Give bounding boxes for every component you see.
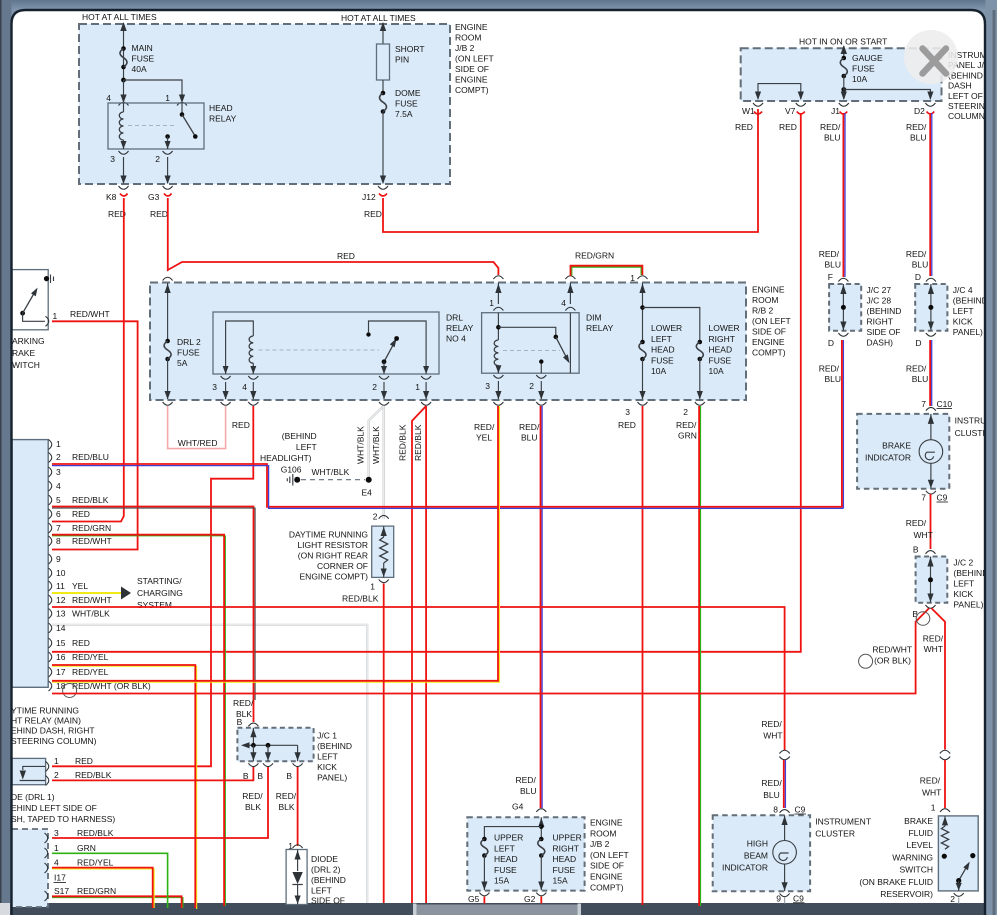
svg-text:GRN: GRN bbox=[678, 431, 697, 441]
wire K8 red down bbox=[52, 194, 128, 522]
svg-text:1: 1 bbox=[630, 273, 635, 283]
svg-text:DASH: DASH bbox=[948, 81, 972, 91]
svg-text:YEL: YEL bbox=[72, 581, 88, 591]
node below gauge fuse bbox=[841, 87, 846, 92]
svg-text:J/C 27: J/C 27 bbox=[867, 285, 892, 295]
svg-text:CLUSTE: CLUSTE bbox=[955, 428, 989, 438]
svg-text:HIGH: HIGH bbox=[747, 839, 768, 849]
svg-text:BLU: BLU bbox=[825, 260, 842, 270]
svg-text:1: 1 bbox=[54, 756, 59, 766]
svg-text:WHT: WHT bbox=[924, 644, 943, 654]
svg-text:RED/GRN: RED/GRN bbox=[575, 251, 614, 261]
svg-text:9: 9 bbox=[776, 894, 781, 904]
wire pin7 RED/GRN to S17 bbox=[52, 536, 225, 906]
wire pin2 RED/BLU to G4 junction and J1 bbox=[52, 464, 843, 507]
svg-text:RED/: RED/ bbox=[819, 364, 840, 374]
wire pin17 RED/YEL down bbox=[52, 406, 499, 682]
svg-text:RED/GRN: RED/GRN bbox=[77, 886, 116, 896]
svg-text:HEAD: HEAD bbox=[709, 345, 733, 355]
svg-text:FUSE: FUSE bbox=[132, 54, 155, 64]
svg-text:RED/WHT: RED/WHT bbox=[72, 536, 112, 546]
svg-text:LOWER: LOWER bbox=[651, 323, 682, 333]
svg-text:3: 3 bbox=[625, 407, 630, 417]
svg-text:D: D bbox=[915, 272, 921, 282]
svg-text:3: 3 bbox=[212, 382, 217, 392]
wire pin11 YEL to starting/charging bbox=[52, 592, 121, 594]
svg-text:HOT AT ALL TIMES: HOT AT ALL TIMES bbox=[82, 12, 157, 22]
svg-text:ENGINE: ENGINE bbox=[752, 285, 785, 295]
engine room J/B 2 lower box bbox=[467, 817, 584, 890]
DIM relay internals bbox=[497, 313, 499, 340]
svg-text:ENGINE: ENGINE bbox=[455, 75, 488, 85]
svg-text:SIDE OF: SIDE OF bbox=[752, 327, 786, 337]
svg-text:RIGHT: RIGHT bbox=[709, 334, 735, 344]
svg-text:BLU: BLU bbox=[824, 133, 841, 143]
svg-text:HT RELAY (MAIN): HT RELAY (MAIN) bbox=[11, 716, 81, 726]
instrument cluster brake indicator box bbox=[857, 414, 949, 489]
svg-text:G2: G2 bbox=[524, 894, 536, 904]
svg-text:FUSE: FUSE bbox=[709, 355, 732, 365]
svg-text:RED/: RED/ bbox=[906, 364, 927, 374]
svg-text:EHIND LEFT SIDE OF: EHIND LEFT SIDE OF bbox=[11, 803, 97, 813]
dashed link G106 to E4 bbox=[301, 479, 365, 481]
svg-text:LEFT: LEFT bbox=[296, 442, 317, 452]
svg-text:DAYTIME RUNNING: DAYTIME RUNNING bbox=[289, 529, 368, 539]
svg-text:STARTING/: STARTING/ bbox=[137, 576, 182, 586]
svg-text:FLUID: FLUID bbox=[908, 828, 933, 838]
svg-text:(BEHIND: (BEHIND bbox=[311, 875, 346, 885]
wire pin18 RED/WHT (OR BLK) to J/C2 bbox=[52, 608, 929, 693]
svg-text:DASH): DASH) bbox=[867, 337, 894, 347]
scrollbar corner notch bbox=[0, 903, 10, 915]
svg-text:ROOM: ROOM bbox=[455, 33, 481, 43]
svg-text:RED/BLK: RED/BLK bbox=[77, 828, 114, 838]
instrument panel J/B dashed box bbox=[741, 48, 942, 101]
svg-text:10A: 10A bbox=[651, 366, 666, 376]
connector 7 C9 bbox=[926, 491, 936, 494]
svg-text:WHT: WHT bbox=[914, 530, 933, 540]
svg-text:(BEHIND: (BEHIND bbox=[953, 295, 988, 305]
svg-text:C9: C9 bbox=[937, 493, 948, 503]
svg-text:COMPT): COMPT) bbox=[752, 348, 786, 358]
svg-text:ENGINE: ENGINE bbox=[590, 872, 623, 882]
svg-text:ENGINE COMPT): ENGINE COMPT) bbox=[300, 572, 369, 582]
svg-text:RAKE: RAKE bbox=[12, 348, 35, 358]
svg-text:J/B 2: J/B 2 bbox=[590, 839, 610, 849]
svg-text:COLUMN: COLUMN bbox=[948, 111, 985, 121]
svg-text:INSTRUMENT: INSTRUMENT bbox=[815, 817, 871, 827]
wires fuses to box bottom bbox=[484, 856, 541, 891]
svg-text:RED/: RED/ bbox=[519, 422, 540, 432]
svg-text:(OR BLK): (OR BLK) bbox=[874, 656, 911, 666]
svg-text:RED/: RED/ bbox=[242, 791, 263, 801]
fuse LOWER RIGHT HEAD FUSE 10A bbox=[698, 340, 703, 345]
svg-text:3: 3 bbox=[485, 381, 490, 391]
svg-text:BLK: BLK bbox=[245, 802, 261, 812]
fuse MAIN FUSE 40A bbox=[121, 46, 126, 51]
wire RED/GRN lower-right fuse down bbox=[700, 406, 702, 906]
svg-text:EHIND DASH, RIGHT: EHIND DASH, RIGHT bbox=[11, 726, 95, 736]
svg-text:YEL: YEL bbox=[476, 433, 492, 443]
svg-text:BLU: BLU bbox=[912, 260, 929, 270]
wire RED/BLK resistor down bbox=[383, 584, 385, 904]
svg-text:RED/YEL: RED/YEL bbox=[72, 652, 109, 662]
svg-text:RED/YEL: RED/YEL bbox=[77, 858, 114, 868]
svg-text:BEAM: BEAM bbox=[744, 851, 768, 861]
wire J/C1 right out to diode DRL2 bbox=[297, 767, 299, 846]
svg-text:RED/: RED/ bbox=[819, 249, 840, 259]
svg-text:1: 1 bbox=[56, 439, 61, 449]
svg-text:WHT: WHT bbox=[763, 731, 782, 741]
svg-text:RED/: RED/ bbox=[761, 778, 782, 788]
svg-text:YTIME RUNNING: YTIME RUNNING bbox=[11, 705, 79, 715]
svg-text:J/C 28: J/C 28 bbox=[867, 295, 892, 305]
svg-text:SYSTEM: SYSTEM bbox=[137, 600, 172, 610]
svg-text:5A: 5A bbox=[177, 358, 188, 368]
svg-text:5: 5 bbox=[56, 495, 61, 505]
svg-text:4: 4 bbox=[56, 481, 61, 491]
svg-text:3: 3 bbox=[56, 467, 61, 477]
DIM relay top cups at box edge bbox=[493, 276, 503, 279]
svg-text:SIDE OF: SIDE OF bbox=[590, 861, 624, 871]
svg-text:KICK: KICK bbox=[317, 762, 337, 772]
wire pin16 RED/YEL down bbox=[52, 666, 197, 909]
svg-text:DIM: DIM bbox=[586, 313, 602, 323]
svg-text:15A: 15A bbox=[553, 876, 568, 886]
svg-text:2: 2 bbox=[529, 381, 534, 391]
high beam drop: inline connector break bbox=[779, 750, 789, 760]
svg-text:DE (DRL 1): DE (DRL 1) bbox=[11, 792, 55, 802]
svg-text:I17: I17 bbox=[54, 873, 66, 883]
svg-text:HEADLIGHT): HEADLIGHT) bbox=[260, 453, 312, 463]
svg-text:STEERING COLUMN): STEERING COLUMN) bbox=[11, 736, 97, 746]
svg-text:INDICATOR: INDICATOR bbox=[722, 863, 768, 873]
svg-text:FUSE: FUSE bbox=[395, 99, 418, 109]
instrument cluster high beam box bbox=[713, 815, 810, 891]
wires relay pins to box bottom bbox=[124, 157, 168, 183]
svg-text:1: 1 bbox=[370, 582, 375, 592]
connector 9 C9 bbox=[780, 893, 790, 896]
svg-text:(BEHIND: (BEHIND bbox=[317, 741, 352, 751]
fuse DRL 2 FUSE 5A bbox=[167, 283, 169, 341]
exit cups below box K8 G3 bbox=[119, 186, 129, 189]
svg-text:DIODE: DIODE bbox=[311, 854, 338, 864]
svg-text:COMPT): COMPT) bbox=[590, 882, 624, 892]
DIM relay bottom cups bbox=[493, 375, 503, 378]
svg-text:4: 4 bbox=[242, 382, 247, 392]
svg-text:UPPER: UPPER bbox=[494, 833, 523, 843]
wire RED/YEL pin4 down bbox=[52, 869, 154, 908]
svg-text:1: 1 bbox=[53, 311, 58, 321]
svg-text:2: 2 bbox=[155, 154, 160, 164]
exit cups below box bbox=[221, 402, 231, 405]
svg-text:SIDE OF: SIDE OF bbox=[455, 64, 489, 74]
svg-text:(ON LEFT: (ON LEFT bbox=[455, 54, 494, 64]
svg-text:F: F bbox=[828, 272, 833, 282]
fuse DOME FUSE 7.5A bbox=[381, 91, 386, 96]
svg-text:10A: 10A bbox=[852, 74, 867, 84]
entry cup DRL2 fuse bbox=[163, 277, 173, 280]
svg-text:BLU: BLU bbox=[763, 790, 780, 800]
svg-text:RED: RED bbox=[735, 122, 753, 132]
svg-text:SIDE OF: SIDE OF bbox=[311, 896, 345, 906]
svg-text:16: 16 bbox=[56, 652, 66, 662]
scrollbar thumb bbox=[413, 904, 417, 915]
svg-text:CORNER OF: CORNER OF bbox=[317, 561, 368, 571]
svg-text:DOME: DOME bbox=[395, 88, 421, 98]
svg-text:GRN: GRN bbox=[77, 843, 96, 853]
svg-text:ENGINE: ENGINE bbox=[455, 22, 488, 32]
svg-text:FUSE: FUSE bbox=[651, 355, 674, 365]
svg-text:S17: S17 bbox=[54, 886, 69, 896]
inline connector break right wire bbox=[940, 750, 950, 760]
svg-text:40A: 40A bbox=[132, 64, 147, 74]
wire RED/WHT C9 to JC2 bbox=[930, 494, 932, 549]
svg-text:RED/BLK: RED/BLK bbox=[413, 424, 423, 461]
wire gauge fuse feed bbox=[843, 46, 845, 58]
svg-text:HEAD: HEAD bbox=[209, 103, 233, 113]
wire pin13 WHT/BLK long bbox=[52, 625, 367, 903]
svg-text:LEFT: LEFT bbox=[494, 843, 515, 853]
svg-text:17: 17 bbox=[56, 667, 66, 677]
svg-text:K8: K8 bbox=[106, 192, 117, 202]
wire RED/BLU J/C4 to brake indicator bbox=[929, 340, 931, 406]
DRL relay switch bbox=[369, 321, 427, 374]
svg-text:3: 3 bbox=[54, 828, 59, 838]
fuse pair feed bbox=[642, 283, 644, 342]
fuse UPPER RIGHT HEAD FUSE 15A bbox=[539, 837, 544, 842]
wire J1 red/blu down bbox=[840, 112, 848, 278]
engine room R/B 2 dashed box bbox=[150, 283, 746, 401]
wire WHT/RED U from fuse to pin3 bbox=[168, 406, 226, 449]
fuse GAUGE FUSE 10A bbox=[842, 56, 847, 61]
svg-text:1: 1 bbox=[415, 382, 420, 392]
exit cup DRL2 fuse bottom bbox=[163, 402, 173, 405]
svg-text:8: 8 bbox=[56, 536, 61, 546]
svg-text:BLU: BLU bbox=[520, 786, 537, 796]
svg-text:C9: C9 bbox=[795, 805, 806, 815]
svg-text:WITCH: WITCH bbox=[12, 360, 40, 370]
svg-text:J/C 4: J/C 4 bbox=[953, 285, 973, 295]
wire RED/BLK pair from DRL pin1 bbox=[412, 406, 426, 903]
svg-text:RED: RED bbox=[150, 209, 168, 219]
svg-text:LEFT: LEFT bbox=[953, 578, 974, 588]
svg-text:D2: D2 bbox=[914, 106, 925, 116]
svg-text:1: 1 bbox=[54, 843, 59, 853]
svg-text:FUSE: FUSE bbox=[852, 64, 875, 74]
svg-text:4: 4 bbox=[106, 93, 111, 103]
relay DRL RELAY NO 4 box bbox=[213, 312, 439, 374]
svg-text:SH, TAPED TO HARNESS): SH, TAPED TO HARNESS) bbox=[11, 814, 115, 824]
svg-text:RED/: RED/ bbox=[516, 775, 537, 785]
svg-text:FUSE: FUSE bbox=[177, 348, 200, 358]
svg-text:(DRL 2): (DRL 2) bbox=[311, 865, 341, 875]
pin cup 1 bbox=[46, 316, 49, 326]
svg-text:WARNING: WARNING bbox=[892, 852, 933, 862]
svg-text:RED/: RED/ bbox=[233, 698, 254, 708]
svg-text:RED/: RED/ bbox=[474, 422, 495, 432]
svg-text:LEVEL: LEVEL bbox=[907, 840, 934, 850]
svg-text:RED/BLK: RED/BLK bbox=[75, 770, 112, 780]
svg-text:NO 4: NO 4 bbox=[446, 334, 466, 344]
svg-text:2: 2 bbox=[56, 452, 61, 462]
svg-text:7: 7 bbox=[56, 523, 61, 533]
svg-text:G3: G3 bbox=[148, 192, 160, 202]
svg-text:2: 2 bbox=[373, 512, 378, 522]
svg-text:J1: J1 bbox=[831, 106, 840, 116]
svg-text:LEFT: LEFT bbox=[317, 752, 338, 762]
wire to head relay pins bbox=[124, 80, 183, 98]
svg-text:RED/BLK: RED/BLK bbox=[342, 594, 379, 604]
wires DIM pins to box bottom bbox=[498, 381, 541, 399]
circle marker below JC2 bbox=[916, 612, 930, 626]
wire RED lower-left fuse down bbox=[642, 406, 644, 905]
svg-text:PANEL): PANEL) bbox=[317, 773, 347, 783]
svg-text:ROOM: ROOM bbox=[752, 295, 778, 305]
node E4 bbox=[366, 477, 372, 483]
svg-text:G5: G5 bbox=[468, 894, 480, 904]
svg-text:7.5A: 7.5A bbox=[395, 109, 413, 119]
entry arrows bbox=[498, 283, 570, 304]
svg-text:BLU: BLU bbox=[910, 133, 927, 143]
svg-text:6: 6 bbox=[56, 509, 61, 519]
svg-text:RED/: RED/ bbox=[906, 122, 927, 132]
svg-text:V7: V7 bbox=[785, 106, 796, 116]
DRL relay coil branch bbox=[226, 321, 254, 374]
svg-text:1: 1 bbox=[165, 93, 170, 103]
svg-text:WHT/BLK: WHT/BLK bbox=[356, 426, 366, 464]
wires DRL pins to box bottom bbox=[226, 382, 427, 399]
svg-text:RED: RED bbox=[72, 638, 90, 648]
svg-text:GAUGE: GAUGE bbox=[852, 53, 883, 63]
svg-text:4: 4 bbox=[54, 858, 59, 868]
wire G2 stub bbox=[540, 897, 542, 904]
18 pin connector body bbox=[12, 440, 48, 688]
svg-text:15A: 15A bbox=[494, 876, 509, 886]
scrollbar corner notch bbox=[0, 903, 10, 915]
svg-text:J12: J12 bbox=[362, 192, 376, 202]
svg-text:FUSE: FUSE bbox=[494, 865, 517, 875]
wire split right branch to brake fluid switch bbox=[932, 608, 946, 749]
bottom connector dashed box bbox=[12, 829, 48, 907]
svg-text:C9: C9 bbox=[793, 894, 804, 904]
svg-text:WHT/RED: WHT/RED bbox=[178, 438, 218, 448]
svg-text:CHARGING: CHARGING bbox=[137, 588, 183, 598]
svg-text:BLU: BLU bbox=[825, 374, 842, 384]
svg-text:HOT IN ON OR START: HOT IN ON OR START bbox=[799, 37, 887, 47]
svg-text:15: 15 bbox=[56, 638, 66, 648]
svg-text:4: 4 bbox=[561, 298, 566, 308]
wire bracket W1 V7 bbox=[758, 84, 801, 99]
svg-text:12: 12 bbox=[56, 595, 66, 605]
engine room J/B 2 dashed box bbox=[79, 24, 450, 184]
svg-text:RELAY: RELAY bbox=[586, 323, 614, 333]
svg-text:1: 1 bbox=[489, 298, 494, 308]
svg-text:(ON LEFT: (ON LEFT bbox=[590, 850, 629, 860]
wire G5 stub bbox=[483, 897, 485, 904]
DRL relay dashed link bbox=[259, 349, 380, 351]
svg-text:ENGINE: ENGINE bbox=[590, 818, 623, 828]
pin cups head relay top bbox=[119, 102, 129, 105]
svg-text:STEERIN: STEERIN bbox=[948, 101, 985, 111]
svg-text:WHT: WHT bbox=[922, 788, 941, 798]
svg-text:RED/BLK: RED/BLK bbox=[72, 495, 109, 505]
head relay dashed link bbox=[128, 125, 176, 127]
svg-text:ENGINE: ENGINE bbox=[752, 337, 785, 347]
svg-text:SHORT: SHORT bbox=[395, 44, 425, 54]
svg-text:E4: E4 bbox=[362, 488, 373, 498]
svg-text:PANEL): PANEL) bbox=[953, 599, 983, 609]
svg-text:B: B bbox=[237, 717, 243, 727]
svg-text:14: 14 bbox=[56, 623, 66, 633]
svg-text:PIN: PIN bbox=[395, 55, 409, 65]
svg-text:KICK: KICK bbox=[953, 589, 973, 599]
svg-text:RED: RED bbox=[337, 251, 355, 261]
svg-text:2: 2 bbox=[54, 770, 59, 780]
svg-text:1: 1 bbox=[931, 803, 936, 813]
svg-text:BLK: BLK bbox=[279, 802, 295, 812]
wires fuses to box bottom bbox=[643, 359, 700, 399]
svg-text:13: 13 bbox=[56, 609, 66, 619]
svg-text:10: 10 bbox=[56, 568, 66, 578]
svg-text:HEAD: HEAD bbox=[494, 854, 518, 864]
bracket RED/GRN over DIM pin4 to fuse 1 bbox=[572, 267, 641, 276]
svg-text:10A: 10A bbox=[709, 366, 724, 376]
svg-text:(BEHIND: (BEHIND bbox=[953, 568, 988, 578]
svg-text:LEFT: LEFT bbox=[953, 306, 974, 316]
wire WHT/BLK pin2 to E4 and resistor bbox=[369, 406, 384, 477]
svg-text:SWITCH: SWITCH bbox=[899, 865, 933, 875]
switch blade bbox=[20, 311, 25, 316]
exit cups W1 V7 J1 D2 bbox=[753, 103, 763, 106]
svg-text:HEAD: HEAD bbox=[651, 345, 675, 355]
relay DIM RELAY box bbox=[482, 313, 579, 374]
wire pin12 RED/WHT long to high beam drop bbox=[52, 607, 785, 750]
junction box J/C 1 bbox=[248, 723, 258, 726]
svg-text:9: 9 bbox=[56, 554, 61, 564]
svg-text:J/C 2: J/C 2 bbox=[953, 557, 973, 567]
svg-text:RED/: RED/ bbox=[920, 776, 941, 786]
wire RED/BLU break to cluster bbox=[783, 760, 785, 808]
svg-text:RED/WHT: RED/WHT bbox=[872, 645, 912, 655]
svg-text:BRAKE: BRAKE bbox=[882, 441, 911, 451]
svg-text:INDICATOR: INDICATOR bbox=[865, 453, 911, 463]
svg-text:WHT/BLK: WHT/BLK bbox=[371, 426, 381, 464]
wire J/C1 mid out to bottom connector pin3 bbox=[52, 767, 268, 838]
svg-text:RED/: RED/ bbox=[276, 791, 297, 801]
svg-text:RIGHT: RIGHT bbox=[553, 843, 579, 853]
wire dome fuse to J12 bbox=[382, 112, 384, 184]
svg-text:KICK: KICK bbox=[953, 316, 973, 326]
svg-text:RED/BLK: RED/BLK bbox=[398, 424, 408, 461]
svg-text:HEAD: HEAD bbox=[553, 854, 577, 864]
svg-text:RIGHT: RIGHT bbox=[867, 316, 893, 326]
svg-text:B: B bbox=[286, 771, 292, 781]
right band bbox=[986, 0, 997, 915]
brake fluid level warning switch box bbox=[938, 816, 978, 891]
svg-text:RED: RED bbox=[232, 420, 250, 430]
lamp high beam indicator bbox=[773, 841, 797, 865]
top band mask above panel bbox=[0, 0, 997, 10]
scrollbar track bbox=[12, 903, 997, 915]
svg-text:DRL: DRL bbox=[446, 313, 463, 323]
wire GRN pin1 down bbox=[52, 853, 168, 908]
svg-text:LOWER: LOWER bbox=[709, 323, 740, 333]
svg-text:ROOM: ROOM bbox=[590, 828, 616, 838]
wire S17 RED/GRN bbox=[52, 898, 183, 908]
svg-text:RED: RED bbox=[75, 756, 93, 766]
svg-text:DRL 2: DRL 2 bbox=[177, 337, 201, 347]
